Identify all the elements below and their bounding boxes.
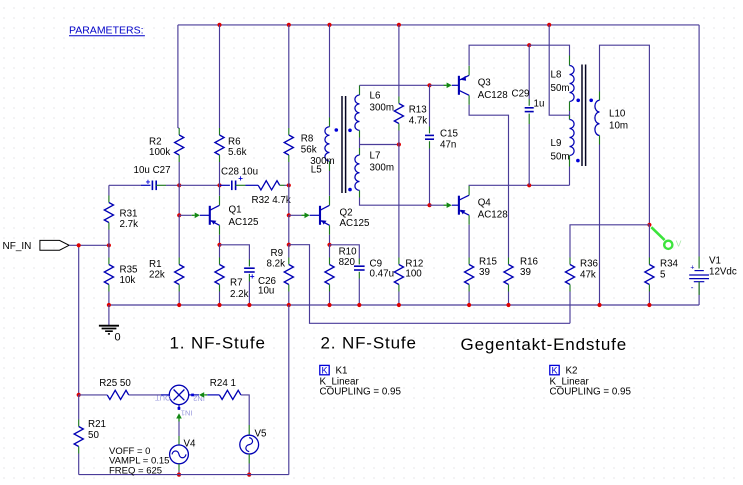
svg-text:0.47u: 0.47u bbox=[370, 269, 395, 280]
polarity dot L9 bbox=[576, 159, 580, 163]
wire L10 top loop bbox=[600, 45, 650, 225]
pin V1 bottom stub bbox=[698, 282, 700, 295]
wire Q1 base wire bbox=[179, 214, 192, 216]
node Q2 emitter junction bbox=[327, 243, 331, 247]
pin L6 top stub bbox=[359, 85, 361, 95]
node R35 ground rail junction bbox=[107, 303, 111, 307]
wire R6 to bus node bbox=[219, 162, 221, 185]
node R9 rail junction bbox=[287, 303, 291, 307]
core of transformer T1 bbox=[341, 96, 343, 193]
port NF_IN bbox=[40, 240, 69, 250]
svg-text:22k: 22k bbox=[149, 270, 165, 281]
wire C15 to Q4 base node bbox=[429, 149, 431, 206]
ground 0 bbox=[108, 305, 110, 326]
node C15 bottom junction bbox=[427, 203, 431, 207]
svg-text:K2: K2 bbox=[566, 366, 578, 377]
svg-text:V4: V4 bbox=[184, 439, 197, 450]
pin C29 bottom stub bbox=[528, 114, 530, 124]
node C29 bottom junction bbox=[527, 183, 531, 187]
pin C26 top stub bbox=[248, 260, 250, 267]
wire Q3 collector jog to R16 column bbox=[469, 105, 508, 258]
pin Q4 emitter stub bbox=[468, 215, 470, 225]
wire C28 to R32 bbox=[236, 184, 246, 186]
pin Q1 emitter stub bbox=[219, 225, 221, 235]
svg-text:2. NF-Stufe: 2. NF-Stufe bbox=[321, 333, 417, 352]
pin Q2 emitter stub bbox=[329, 225, 331, 235]
inductor L9 50m bbox=[570, 120, 575, 156]
svg-text:R34: R34 bbox=[660, 259, 679, 270]
transistor Q2 AC125 bbox=[310, 214, 320, 216]
pin L7 bottom stub bbox=[359, 190, 361, 197]
wire rail to R6 bbox=[219, 25, 221, 128]
wire NF_IN to R31/R35 node bbox=[69, 244, 109, 246]
svg-text:Q1: Q1 bbox=[229, 205, 242, 216]
wire center tap node to R12 bbox=[398, 145, 400, 258]
transistor Q3 AC128 bbox=[452, 84, 459, 86]
wire R24 to V5 bbox=[241, 395, 249, 425]
svg-text:56k: 56k bbox=[301, 145, 317, 156]
node rail R6 junction bbox=[217, 23, 221, 27]
svg-text:V1: V1 bbox=[709, 256, 721, 267]
svg-text:R10: R10 bbox=[339, 247, 358, 258]
node R15 rail junction bbox=[467, 303, 471, 307]
wire node to R35 bbox=[108, 245, 110, 257]
node R16 rail junction bbox=[506, 303, 510, 307]
capacitor C26 10u bbox=[244, 267, 255, 269]
current marker arrow Q1 base bbox=[195, 213, 200, 219]
wire bus R2node to R6node bbox=[179, 184, 219, 186]
wire Q1 emitter node to C26 bbox=[220, 245, 250, 260]
resistor R31 2.7k bbox=[108, 196, 110, 203]
pin V5 top stub bbox=[248, 425, 250, 435]
pin V4 bottom stub bbox=[178, 464, 180, 471]
node L10 rail junction bbox=[597, 303, 601, 307]
wire IN1 to V4 bbox=[178, 422, 180, 437]
current marker arrow Q4 base bbox=[447, 202, 452, 208]
svg-text:820: 820 bbox=[339, 257, 356, 268]
resistor R2 100k bbox=[178, 128, 180, 135]
pin C9 bottom stub bbox=[358, 272, 360, 279]
wire source bottom rail bbox=[79, 474, 289, 476]
node R7 rail junction bbox=[217, 303, 221, 307]
svg-text:5: 5 bbox=[660, 270, 666, 281]
wire node to R25 bbox=[79, 394, 108, 396]
pin L10 top stub bbox=[599, 92, 601, 101]
wire L8 bottom to center tap bbox=[569, 111, 571, 115]
node R6/Q1-collector junction bbox=[217, 183, 221, 187]
pin V1 top stub bbox=[698, 257, 700, 269]
wire R31 corner to C27 bbox=[109, 184, 141, 186]
svg-text:47n: 47n bbox=[440, 140, 456, 151]
node center tap junction bbox=[397, 142, 401, 146]
wire center tap to L7 bbox=[359, 145, 361, 149]
source V5 bbox=[240, 435, 259, 454]
pin L5 top stub bbox=[329, 118, 331, 127]
svg-text:+: + bbox=[250, 272, 255, 281]
svg-text:300m: 300m bbox=[370, 103, 395, 114]
resistor R10 820 bbox=[329, 258, 331, 265]
wire Q2 base node down to R9 node bbox=[288, 215, 290, 244]
wire C15 node to cap bbox=[429, 85, 431, 126]
current marker arrow Q2 base bbox=[305, 213, 310, 219]
wire R31 branch from C27 bus bbox=[108, 185, 110, 195]
resistor R9 8.2k bbox=[288, 258, 290, 265]
inductor L10 10m bbox=[595, 100, 600, 135]
svg-text:R25 50: R25 50 bbox=[99, 378, 131, 389]
node NF_IN/R31/R35 junction bbox=[107, 243, 111, 247]
svg-text:39: 39 bbox=[520, 267, 531, 278]
svg-text:V5: V5 bbox=[255, 429, 268, 440]
svg-text:L10: L10 bbox=[609, 109, 626, 120]
polarity dot L5 bbox=[335, 128, 339, 132]
node output junction bbox=[647, 223, 651, 227]
wire C29 to Q4 collector line bbox=[528, 124, 530, 185]
svg-text:R15: R15 bbox=[479, 257, 498, 268]
wire L6 to center tap bbox=[359, 138, 361, 145]
node rail L5 junction bbox=[327, 23, 331, 27]
pin C29 top stub bbox=[528, 99, 530, 106]
wire Q1 base node to R1 bbox=[178, 215, 180, 257]
wire input node down to source loop bbox=[78, 245, 80, 395]
svg-text:R32 4.7k: R32 4.7k bbox=[252, 195, 291, 206]
svg-text:R24 1: R24 1 bbox=[210, 378, 236, 389]
svg-text:K1: K1 bbox=[336, 366, 348, 377]
node R12 rail junction bbox=[397, 303, 401, 307]
node R32/R8 junction bbox=[287, 183, 291, 187]
svg-text:L5: L5 bbox=[311, 165, 322, 176]
wire output node to R36 top bbox=[570, 225, 649, 258]
wire R21 to source rail bbox=[78, 454, 80, 475]
svg-text:100: 100 bbox=[405, 269, 422, 280]
pin Q3 collector stub bbox=[468, 95, 470, 105]
svg-text:+: + bbox=[690, 265, 694, 272]
svg-text:50: 50 bbox=[88, 430, 99, 441]
inductor L8 50m bbox=[570, 66, 575, 102]
wire Q4 emitter to R15 bbox=[468, 225, 470, 258]
wire R35 to rail bbox=[108, 292, 110, 306]
wire Q2 emitter to node bbox=[329, 235, 331, 245]
wire arrow to R24 bbox=[207, 394, 219, 396]
wire R16 to rail bbox=[508, 292, 510, 306]
wire source rail up to ground rail bbox=[288, 305, 290, 475]
svg-text:AC125: AC125 bbox=[229, 217, 260, 228]
svg-text:K: K bbox=[551, 366, 557, 376]
node Q1 base junction bbox=[177, 213, 181, 217]
svg-text:C15: C15 bbox=[440, 129, 459, 140]
wire bus to Q1 base node bbox=[178, 185, 180, 215]
svg-text:10u C27: 10u C27 bbox=[134, 165, 171, 176]
transistor Q1 AC125 bbox=[200, 214, 210, 216]
svg-text:12Vdc: 12Vdc bbox=[709, 267, 737, 278]
svg-text:L7: L7 bbox=[370, 151, 381, 162]
pin C15 bottom stub bbox=[429, 141, 431, 148]
svg-text:L9: L9 bbox=[551, 138, 562, 149]
node V5 rail junction bbox=[247, 473, 251, 477]
inductor L6 300m bbox=[355, 95, 360, 130]
svg-text:R36: R36 bbox=[580, 259, 599, 270]
current marker arrow Q3 base bbox=[447, 83, 452, 89]
wire Q3 emitter up to L8 line bbox=[469, 45, 529, 66]
pin Q1 collector stub bbox=[219, 196, 221, 206]
svg-text:R16: R16 bbox=[520, 257, 539, 268]
wire Q2 collector to L5 bbox=[329, 171, 331, 196]
svg-text:8.2k: 8.2k bbox=[267, 259, 286, 270]
wire V4 to source rail bbox=[178, 471, 180, 475]
svg-text:39: 39 bbox=[479, 267, 490, 278]
svg-text:PARAMETERS:: PARAMETERS: bbox=[69, 24, 143, 36]
resistor R13 4.7k bbox=[398, 97, 400, 104]
wire Q2 base wire bbox=[289, 214, 302, 216]
resistor R36 47k bbox=[569, 258, 571, 265]
resistor R32 4.7k bbox=[258, 181, 280, 190]
svg-text:4.7k: 4.7k bbox=[409, 116, 428, 127]
svg-text:COUPLING = 0.95: COUPLING = 0.95 bbox=[550, 387, 632, 398]
svg-text:10u: 10u bbox=[258, 286, 274, 297]
resistor R12 100 bbox=[398, 258, 400, 265]
core of transformer T2 bbox=[581, 65, 583, 167]
node rail R8 junction bbox=[287, 23, 291, 27]
source V4 VSIN bbox=[170, 445, 189, 464]
capacitor C9 0.47u bbox=[354, 265, 365, 267]
svg-text:50m: 50m bbox=[551, 152, 570, 163]
svg-text:5.6k: 5.6k bbox=[228, 147, 247, 158]
svg-text:OUT: OUT bbox=[155, 394, 171, 403]
node C29 top junction bbox=[527, 43, 531, 47]
pin C15 top stub bbox=[429, 127, 431, 134]
resistor R16 39 bbox=[508, 258, 510, 265]
svg-text:Q3: Q3 bbox=[478, 78, 492, 89]
svg-text:FREQ = 625: FREQ = 625 bbox=[109, 465, 162, 476]
resistor R15 39 bbox=[468, 258, 470, 265]
svg-text:Gegentakt-Endstufe: Gegentakt-Endstufe bbox=[461, 335, 628, 354]
coupling K2 bbox=[550, 365, 559, 374]
svg-text:R21: R21 bbox=[88, 419, 106, 430]
capacitor C27 lead bbox=[141, 184, 151, 186]
wire V5 to source rail bbox=[248, 464, 250, 475]
resistor R25 50 bbox=[107, 390, 129, 399]
svg-text:L6: L6 bbox=[370, 91, 381, 102]
node C15 top junction bbox=[427, 83, 431, 87]
node input junction bbox=[77, 243, 81, 247]
node V4 rail junction bbox=[177, 473, 181, 477]
wire rail to L5 bbox=[329, 25, 331, 118]
svg-text:2.7k: 2.7k bbox=[120, 219, 139, 230]
wire rail to R2 bbox=[177, 25, 179, 128]
pin L7 top stub bbox=[359, 148, 361, 155]
svg-text:IN1: IN1 bbox=[181, 408, 193, 417]
svg-text:50m: 50m bbox=[551, 83, 570, 94]
capacitor C27 10u bbox=[151, 181, 153, 191]
svg-text:R7: R7 bbox=[230, 278, 243, 289]
pin multiplier IN2 bbox=[189, 394, 199, 396]
transistor Q4 AC128 bbox=[452, 204, 459, 206]
wire rail to primary center tap bbox=[549, 25, 569, 115]
node C26 rail junction bbox=[247, 303, 251, 307]
wire C29 node to cap bbox=[528, 45, 530, 99]
inductor L5 300m bbox=[325, 127, 330, 161]
svg-text:47k: 47k bbox=[580, 270, 596, 281]
wire R13 to center tap node bbox=[398, 131, 400, 145]
pin L9 top stub bbox=[569, 115, 571, 119]
resistor R8 56k bbox=[288, 128, 290, 135]
node R1 rail junction bbox=[177, 303, 181, 307]
wire R34 from output node bbox=[648, 225, 650, 258]
svg-text:-: - bbox=[691, 283, 694, 292]
svg-text:AC128: AC128 bbox=[478, 90, 509, 101]
node C9 rail junction bbox=[357, 303, 361, 307]
svg-text:Q4: Q4 bbox=[478, 198, 492, 209]
current marker arrow IN2 bbox=[199, 392, 204, 398]
pin V4 top stub bbox=[178, 436, 180, 445]
svg-text:L8: L8 bbox=[551, 70, 562, 81]
svg-text:AC128: AC128 bbox=[478, 210, 509, 221]
pin Q3 emitter stub bbox=[468, 66, 470, 76]
wire R34 to rail bbox=[648, 292, 650, 306]
capacitor C29 1u bbox=[525, 107, 534, 109]
wire R36 bottom through rail to feedback line bbox=[569, 292, 571, 324]
wire Q2 emitter node to C9 bbox=[330, 245, 360, 259]
wire R7 to rail bbox=[219, 292, 221, 306]
svg-text:R13: R13 bbox=[409, 105, 428, 116]
wire L9 bottom to Q4 collector line bbox=[569, 167, 571, 186]
wire R21 branch bbox=[78, 395, 80, 420]
pin L10 bottom stub bbox=[599, 135, 601, 144]
wire C26 to rail bbox=[248, 282, 250, 306]
node R34 rail junction bbox=[647, 303, 651, 307]
wire Q1 collector to bus node bbox=[219, 185, 221, 196]
svg-text:C28 10u: C28 10u bbox=[221, 167, 258, 178]
node C27/R2 junction bbox=[177, 183, 181, 187]
pin C9 top stub bbox=[358, 259, 360, 265]
wire R1 to rail bbox=[178, 292, 180, 306]
pin L5 bottom stub bbox=[329, 161, 331, 171]
pin L6 bottom stub bbox=[359, 130, 361, 137]
probe V marker bbox=[651, 227, 664, 240]
resistor R35 10k bbox=[108, 258, 110, 265]
wire R8 to bus end bbox=[288, 162, 290, 185]
wire L10 bottom to rail bbox=[599, 145, 601, 306]
svg-text:NF_IN: NF_IN bbox=[3, 241, 32, 252]
capacitor C28 lead bbox=[220, 184, 230, 186]
wire Q1 emitter to node bbox=[219, 235, 221, 245]
pin multiplier OUT bbox=[161, 394, 169, 396]
pin Q4 collector stub bbox=[468, 186, 470, 196]
wire node to R7 bbox=[219, 245, 221, 258]
svg-text:R31: R31 bbox=[120, 209, 138, 220]
wire L6 top to Q3 base line bbox=[360, 84, 430, 86]
node rail R13 junction bbox=[397, 23, 401, 27]
svg-text:300m: 300m bbox=[370, 163, 395, 174]
svg-text:R2: R2 bbox=[149, 137, 162, 148]
svg-text:10k: 10k bbox=[120, 275, 136, 286]
svg-text:R35: R35 bbox=[120, 265, 139, 276]
svg-text:100k: 100k bbox=[149, 147, 170, 158]
resistor R34 5 bbox=[648, 258, 650, 265]
resistor R7 2.2k bbox=[219, 258, 221, 265]
battery V1 12Vdc bbox=[695, 270, 704, 272]
wire C9 to rail bbox=[358, 279, 360, 306]
svg-text:0: 0 bbox=[115, 332, 121, 344]
polarity dot L8 bbox=[576, 99, 580, 103]
wire R10 to rail bbox=[329, 292, 331, 306]
wire L7 bottom corner to Q4 base line bbox=[360, 198, 430, 206]
resistor R1 22k bbox=[178, 258, 180, 265]
svg-text:1. NF-Stufe: 1. NF-Stufe bbox=[170, 333, 266, 352]
wire C29 node to L8 top bbox=[529, 45, 569, 55]
wire +12V top rail bbox=[178, 24, 699, 26]
svg-text:+: + bbox=[146, 178, 151, 187]
node R25/R21 junction bbox=[77, 393, 81, 397]
multiplier MULT U1 bbox=[169, 385, 188, 404]
svg-text:10m: 10m bbox=[609, 121, 628, 132]
node rail center-tap junction bbox=[547, 23, 551, 27]
node R9/feedback junction bbox=[287, 243, 291, 247]
svg-text:R9: R9 bbox=[271, 248, 284, 259]
pin multiplier IN1 bbox=[178, 405, 180, 410]
capacitor C28 10u bbox=[231, 181, 233, 191]
wire center tap to L9 top bbox=[569, 115, 571, 119]
wire feedback R9-node to R36 bottom bbox=[289, 245, 570, 324]
wire bottom ground rail bbox=[109, 304, 699, 306]
wire node to R10 bbox=[329, 245, 331, 258]
pin Q2 collector stub bbox=[329, 196, 331, 206]
node Q1 emitter junction bbox=[217, 243, 221, 247]
svg-text:Q2: Q2 bbox=[340, 208, 353, 219]
svg-text:2.2k: 2.2k bbox=[230, 289, 249, 300]
polarity dot L10 bbox=[589, 99, 593, 103]
svg-text:V: V bbox=[676, 238, 682, 248]
svg-text:C29: C29 bbox=[512, 89, 530, 100]
polarity dot L6 bbox=[348, 129, 352, 133]
wire R15 to rail bbox=[468, 292, 470, 306]
wire R2 to bus bbox=[178, 162, 180, 185]
resistor R6 5.6k bbox=[219, 128, 221, 135]
current marker arrow IN1 bbox=[176, 413, 182, 418]
wire C15 node to Q3 base arrow bbox=[430, 84, 444, 86]
wire R12 to rail bbox=[398, 292, 400, 306]
inductor L7 300m bbox=[355, 155, 360, 190]
wire Q4 collector line to L9 bbox=[469, 184, 569, 186]
svg-text:R6: R6 bbox=[228, 137, 241, 148]
wire center tap to R13/R12 node bbox=[360, 144, 399, 146]
svg-text:K: K bbox=[321, 366, 327, 376]
svg-text:1u: 1u bbox=[534, 99, 545, 110]
resistor R24 1 bbox=[219, 390, 241, 399]
wire R31 to node bbox=[108, 230, 110, 246]
pin L8 bottom stub bbox=[569, 102, 571, 112]
resistor R21 50 bbox=[78, 420, 80, 427]
pin L9 bottom stub bbox=[569, 156, 571, 167]
wire rail to R13 bbox=[398, 25, 400, 97]
wire rail to R8 bbox=[288, 25, 290, 128]
svg-text:R1: R1 bbox=[149, 259, 162, 270]
pin L8 top stub bbox=[569, 56, 571, 66]
wire node to R9 bbox=[288, 245, 290, 258]
wire C27 to R2 node bbox=[156, 184, 166, 186]
wire R32 to R8 column bbox=[280, 184, 285, 186]
polarity dot L7 bbox=[348, 188, 352, 192]
pin V5 bottom stub bbox=[248, 454, 250, 464]
svg-text:COUPLING = 0.95: COUPLING = 0.95 bbox=[320, 387, 402, 398]
wire Q4 base node to arrow bbox=[430, 204, 444, 206]
wire R9 to rail bbox=[288, 292, 290, 306]
svg-text:R8: R8 bbox=[301, 134, 314, 145]
wire R25 to multiplier OUT bbox=[129, 394, 161, 396]
wire V+ right edge drop to V1 bbox=[698, 25, 700, 257]
pin C26 bottom stub bbox=[248, 274, 250, 282]
node R10 rail junction bbox=[327, 303, 331, 307]
node Q2 base junction bbox=[287, 213, 291, 217]
